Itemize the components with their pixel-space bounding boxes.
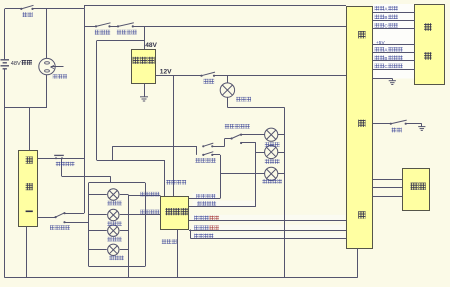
label right turn indicator <box>140 210 159 214</box>
wire throttle signal 3 <box>373 196 403 198</box>
wire high beam throw <box>241 142 256 144</box>
label horn button <box>56 162 75 166</box>
label throttle text <box>411 183 426 190</box>
wire turn lamp ring right <box>145 183 147 266</box>
label high beam lamp <box>265 159 280 164</box>
emergency kill switch S3 <box>117 23 134 28</box>
wire ignition row from bus <box>84 26 96 28</box>
label motor text <box>424 23 432 31</box>
label brake lamp <box>236 97 251 102</box>
high beam lamp L3 <box>265 145 278 158</box>
label air switch <box>23 12 33 17</box>
wire throttle signal 2 <box>373 187 403 189</box>
wire pole b output <box>212 154 220 156</box>
wire position lamp drop <box>220 155 222 199</box>
label speedometer negative <box>194 225 209 230</box>
front left turn lamp L5 <box>108 189 119 200</box>
wire turn feed drop <box>110 176 112 183</box>
wire motor phase A <box>373 12 415 14</box>
label battery meter indicator <box>166 180 186 185</box>
label power-on indicator <box>194 234 213 238</box>
label front right turn <box>107 221 122 226</box>
wire speedometer negative to controller <box>189 230 346 232</box>
throttle box U5 <box>403 169 430 211</box>
label beam selector <box>225 124 250 129</box>
wire hall sensor B <box>373 60 415 62</box>
label rear right turn <box>109 256 124 261</box>
label headlight switch <box>195 158 215 163</box>
label headlamp indicator <box>196 194 215 198</box>
wire battery negative down left edge <box>4 69 6 277</box>
wire kill switch to controller <box>133 26 346 28</box>
dashboard box U3 <box>161 197 189 230</box>
wire hall sensor C <box>373 69 415 71</box>
label highbeam indicator <box>197 201 216 205</box>
label dashboard text <box>165 208 188 215</box>
label left turn indicator <box>140 192 159 196</box>
charge port P1 <box>39 58 55 74</box>
position lamp L4 <box>265 167 278 180</box>
label converter text <box>133 57 155 64</box>
wire turn lamp ring top <box>89 182 146 184</box>
controller box U2 <box>347 7 373 249</box>
headlight switch S5 pole b <box>202 152 213 156</box>
wire rear-left lamp stub <box>89 230 107 232</box>
label charge port <box>53 74 67 78</box>
wire battery positive to top bus <box>4 9 6 59</box>
wire pole a output <box>212 146 224 148</box>
wire top bus breaker to junction <box>33 8 85 10</box>
wire high beam lamp to return bus <box>278 152 285 154</box>
beam selector switch S6 high-low <box>231 134 243 145</box>
wire turn lamp return bus <box>128 195 130 278</box>
wire step up at main junction <box>84 6 86 9</box>
svg-text:B: B <box>384 15 387 20</box>
wire charge port return to battery negative <box>5 107 47 109</box>
label common ground <box>162 239 177 244</box>
wire front-left lamp stub <box>89 194 107 196</box>
ignition lock switch S2 <box>95 23 111 28</box>
wire top bus to controller <box>84 5 346 7</box>
wire power indicator drop <box>190 230 192 239</box>
label turn switch <box>50 225 70 230</box>
wire 48V drop to converter <box>144 26 146 49</box>
svg-text:48V: 48V <box>145 42 157 49</box>
turn signal switch S8 <box>55 212 66 223</box>
wire 12V drop to dashboard <box>173 76 175 196</box>
label band motor wires <box>373 4 414 79</box>
wire turn lamp left bus <box>88 183 90 266</box>
wire headlamp indicator <box>189 198 220 200</box>
wire turn feed horizontal <box>62 176 111 178</box>
rear left turn lamp L7 <box>108 225 119 236</box>
wire low beam feed <box>241 134 265 136</box>
wire reverse to ground <box>406 123 422 125</box>
horn button S7 <box>54 155 64 159</box>
wire front-left lamp out <box>120 194 128 196</box>
wire position lamp feed <box>220 173 265 175</box>
wire controller ground drop <box>357 248 359 277</box>
label motor hall B <box>375 55 385 60</box>
label emergency kill <box>117 30 137 35</box>
svg-text:48V: 48V <box>11 61 21 67</box>
wire horn row <box>38 158 85 160</box>
wire brake signal to controller <box>214 75 346 77</box>
low beam lamp L2 <box>265 128 278 141</box>
wire lamp return bus right side <box>284 107 286 277</box>
label band power indicator <box>192 233 346 238</box>
headlight switch S5 pole a <box>202 143 213 147</box>
label front left turn <box>107 201 122 206</box>
wire brake lamp feed <box>227 76 229 83</box>
label controller text <box>358 31 365 38</box>
wire dashboard common ground <box>177 230 179 278</box>
wire ground lead <box>392 78 394 80</box>
wire turn lamp ring bottom <box>89 266 146 268</box>
label band speedometer negative <box>192 225 346 231</box>
label position lamp <box>262 179 282 184</box>
wire rear-right lamp out <box>120 249 128 251</box>
wire right indicator to dashboard <box>128 214 160 216</box>
label three-in-one text <box>26 157 33 164</box>
motor box M1 <box>415 5 445 85</box>
wire charge port to top bus <box>46 9 48 59</box>
label motor hall C <box>375 64 385 69</box>
wire 48V branch bus down <box>96 41 98 160</box>
label brake switch <box>204 79 215 84</box>
converter box U1 <box>132 50 156 84</box>
wire beam selector pole lead <box>225 138 232 140</box>
wire highbeam indicator <box>189 206 256 208</box>
wire signal horizontal to dashboard drop <box>97 160 165 162</box>
label motor phase B wire <box>375 15 385 20</box>
wire brake lamp return right <box>227 107 284 109</box>
label motor phase C wire <box>375 23 385 28</box>
wire battery-meter drop to dashboard <box>164 160 166 196</box>
svg-text:12V: 12V <box>160 69 172 76</box>
label low beam lamp <box>265 142 280 147</box>
brake switch S4 <box>200 72 215 77</box>
rear right turn lamp L8 <box>108 244 119 255</box>
ground converter <box>140 97 148 101</box>
wire left indicator to dashboard <box>128 195 160 197</box>
wire position lamp to return bus <box>278 173 285 175</box>
ground motor signal <box>389 81 396 85</box>
wire riser to beam selector <box>224 139 226 147</box>
svg-text:B: B <box>384 56 387 61</box>
wire rear-left lamp out <box>120 230 128 232</box>
wire charge port right stub <box>51 66 64 68</box>
wire motor phase B <box>373 20 415 22</box>
label ignition lock <box>95 30 110 35</box>
wire reverse switch lead <box>373 123 391 125</box>
reverse switch S9 <box>390 120 407 125</box>
wire high beam feed drop <box>255 143 257 206</box>
headlight switch S5 common bar <box>196 146 198 155</box>
wire between ignition and kill switch <box>110 26 119 28</box>
label band headlamp indicator <box>193 193 218 199</box>
wire reverse ground lead <box>421 124 423 127</box>
wire front-right lamp stub <box>89 214 107 216</box>
label motor phase A wire <box>375 6 385 11</box>
wire controller signal ground stub <box>373 78 393 80</box>
wire power indicator to controller <box>191 238 347 240</box>
ground reverse switch <box>418 127 425 131</box>
label speedometer positive <box>194 216 209 221</box>
wire headlight feed horizontal <box>112 146 196 148</box>
wire right throw <box>65 222 89 224</box>
wire brake lamp return down <box>227 97 229 107</box>
svg-text:+5V: +5V <box>376 40 385 46</box>
wire 48V branch horizontal <box>97 40 145 42</box>
label reverse switch <box>392 128 402 133</box>
brake lamp L1 <box>220 83 234 97</box>
wire low beam lamp to return bus <box>278 134 285 136</box>
wire main positive bus vertical <box>84 9 86 213</box>
wire turn switch common <box>38 217 56 219</box>
wire horn tap down <box>61 158 63 176</box>
wire three-in-one ground drop <box>26 227 28 278</box>
wire hall sensor A <box>373 52 415 54</box>
wire 12V output <box>156 75 202 77</box>
wire throttle signal 1 <box>373 179 403 181</box>
wire high beam lamp stub <box>256 152 265 154</box>
label band speedometer positive <box>192 215 346 222</box>
wire feed jog vertical <box>112 146 114 160</box>
wire drop to three-in-one box <box>29 107 31 150</box>
wire bottom ground bus <box>5 277 358 279</box>
three-in-one flasher box U4 <box>19 151 38 227</box>
battery BT1 48V plates <box>1 60 10 69</box>
front right turn lamp L6 <box>108 209 119 220</box>
wire top bus left of breaker <box>5 8 22 10</box>
wire left throw to bus <box>65 213 85 215</box>
wire speedometer positive to controller <box>189 220 346 222</box>
breaker switch S1 air-switch <box>20 5 33 10</box>
wire +5V hall supply <box>373 44 415 46</box>
wire converter ground lead <box>144 84 146 97</box>
label rear left turn <box>107 237 122 242</box>
wire front-right lamp out <box>120 214 128 216</box>
wire rear-right lamp stub <box>89 249 107 251</box>
label motor hall A <box>375 47 385 52</box>
wire motor phase C <box>373 28 415 30</box>
wire charge port bottom <box>46 75 48 108</box>
label band highbeam indicator <box>193 201 257 207</box>
